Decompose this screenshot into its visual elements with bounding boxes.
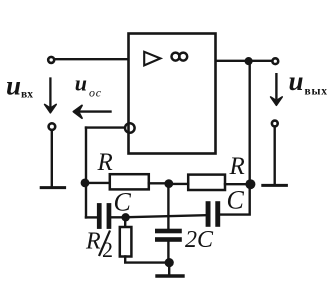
wire node M1 down to capacitor 2C (crosses M2 wire) [167, 184, 169, 229]
svg-text:R: R [229, 153, 245, 180]
capacitor C (left) plates [97, 203, 111, 229]
wire node A down to capacitor C right [220, 184, 249, 214]
wire node M2 to capacitor C left [111, 216, 126, 218]
ground (right) [263, 184, 287, 187]
wire inverting input to node B [86, 126, 124, 128]
wire resistor R left to node M1 [149, 182, 169, 184]
wire bottom node to ground [168, 263, 170, 275]
svg-text:C: C [227, 185, 245, 214]
wire capacitor 2C to bottom node [167, 242, 169, 263]
wire op-amp output [216, 60, 271, 62]
wire resistor R/2 bottom to bottom node [125, 257, 169, 263]
resistor R/2 [120, 227, 132, 257]
svg-text:u: u [289, 66, 304, 96]
wire resistor R right to node A [225, 183, 250, 185]
arrow u_oc (leftward) [73, 105, 110, 118]
node A junction dot [245, 179, 255, 189]
svg-text:R: R [85, 228, 101, 254]
svg-text:u: u [6, 71, 21, 101]
output terminal (bottom right, u_vyx minus) [272, 121, 278, 127]
svg-text:C: C [114, 187, 132, 216]
node M1 junction dot [164, 179, 173, 188]
arrow u_vx (downward) [45, 79, 57, 113]
wire node M1 to resistor R right [169, 183, 188, 185]
wire input terminal to op-amp non-inverting input [55, 58, 129, 60]
node B junction dot [81, 179, 90, 188]
wire capacitor C right to node M2 wire [129, 215, 206, 217]
wire node B to capacitor C left [86, 216, 97, 218]
label u_vx [6, 71, 33, 101]
capacitor C (right) plates [206, 201, 221, 227]
ground (bottom) [157, 274, 183, 277]
wire node B vertical (x=86) [85, 128, 87, 218]
wire terminal to left ground [51, 131, 53, 186]
svg-text:вх: вх [21, 89, 33, 101]
svg-text:ос: ос [89, 85, 102, 99]
resistor R (right) [188, 175, 225, 190]
bottom node junction dot [165, 258, 174, 267]
input terminal (top left, u_vx plus) [48, 57, 54, 63]
wire output junction down to node A [248, 61, 250, 184]
op-amp inverting input circle [125, 123, 135, 133]
svg-text:2: 2 [102, 237, 113, 262]
label R/2 [85, 228, 113, 262]
label u_oc [75, 70, 102, 99]
svg-text:u: u [75, 70, 87, 95]
ground (left) [41, 186, 64, 189]
wire terminal to right ground [274, 128, 276, 185]
output terminal (top right, u_vyx plus) [272, 58, 278, 64]
label u_vyx [289, 66, 328, 97]
wire node M2 down to resistor R/2 [124, 217, 126, 227]
op-amp infinity (gain) symbol [172, 53, 180, 61]
resistor R (left) [110, 174, 149, 189]
output junction dot [245, 57, 253, 65]
op-amp U1 body [129, 34, 216, 154]
arrow u_vyx (downward) [271, 74, 283, 105]
op-amp triangle symbol [144, 52, 160, 66]
capacitor 2C plates [155, 229, 182, 242]
svg-text:вых: вых [305, 85, 328, 97]
wire node B to resistor R left [86, 182, 110, 184]
input terminal (bottom left, u_vx minus) [49, 123, 56, 130]
node M2 junction dot [121, 213, 129, 221]
svg-text:2C: 2C [185, 227, 214, 253]
svg-text:R: R [97, 149, 113, 176]
